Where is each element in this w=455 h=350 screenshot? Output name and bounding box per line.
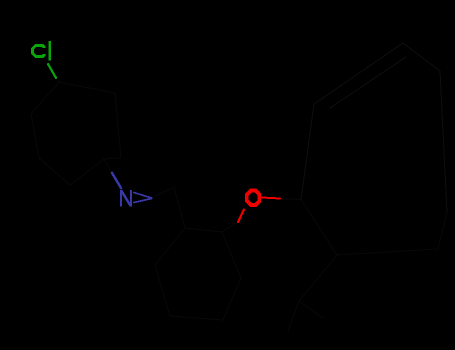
central phenylene ring — [155, 228, 241, 320]
wire Cl-to-ring gray tip — [56, 78, 59, 82]
right ring system upper outline — [301, 43, 447, 212]
label Cl (l glyph) — [49, 41, 52, 60]
wire imine CH chain — [152, 187, 186, 228]
bond N-aryl blue half — [112, 173, 121, 188]
label Cl (C glyph) — [31, 44, 46, 58]
wire O-to-ring gray half — [222, 222, 238, 232]
chlorophenyl ring — [31, 82, 121, 185]
bond Cl green half — [48, 64, 56, 78]
label N — [120, 190, 132, 207]
double bond inner line of right ring — [330, 57, 406, 108]
wire ring-to-N gray half — [104, 159, 112, 173]
right ring system lower outline — [301, 200, 447, 256]
pendant group at bottom — [288, 255, 337, 331]
label O — [245, 189, 261, 208]
bond O-aryl red half — [238, 210, 244, 223]
bond O-CH2 red half — [262, 198, 280, 199]
wire O-to-CH2 gray half — [280, 199, 301, 200]
imine N=C double bond fork — [134, 193, 152, 203]
